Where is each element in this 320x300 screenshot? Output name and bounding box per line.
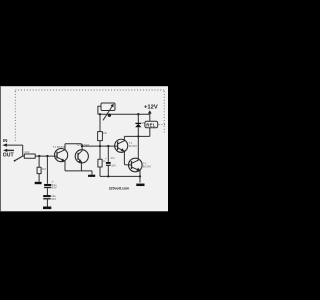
transistor T3 circle: [115, 139, 128, 152]
relay RL1 coil box: [145, 121, 158, 127]
diode D1 anode wire: [137, 127, 139, 136]
T2 emitter arrowhead: [78, 159, 82, 162]
transistor T2 circle: [75, 150, 88, 163]
node R2 junction: [38, 155, 40, 157]
svg-text:IN: IN: [3, 138, 7, 143]
svg-text:+12V: +12V: [144, 105, 158, 111]
svg-text:+: +: [105, 157, 107, 161]
P1 wiper arrowhead: [110, 104, 113, 108]
OUT arrowhead: [3, 149, 7, 152]
node diode top junction: [137, 113, 139, 115]
+12V arrowhead: [148, 110, 152, 113]
svg-text:BC548: BC548: [129, 144, 137, 148]
transistor T4 circle: [129, 158, 143, 172]
node C3 junction: [107, 145, 109, 147]
wire R2 to ground: [38, 174, 40, 182]
capacitor C2 plate 1: [43, 195, 51, 197]
+12V arrow wire: [149, 112, 151, 114]
node pot wiper junction: [108, 114, 111, 117]
wire supply to relay: [149, 114, 151, 121]
potentiometer P1 wiper arrow: [103, 106, 113, 121]
transistor T3 emitter: [118, 148, 132, 165]
svg-text:BC548: BC548: [143, 165, 151, 169]
resistor R4 box: [98, 159, 102, 167]
wire R4 to rail: [99, 167, 101, 176]
transistor T4 emitter: [132, 167, 141, 183]
wire C2 to ground: [46, 200, 48, 207]
transistor T3 base bar: [117, 142, 119, 151]
svg-text:320volt.com: 320volt.com: [109, 185, 130, 190]
white schematic background: [0, 86, 168, 211]
capacitor C1 plate 1: [44, 184, 51, 186]
node T2 collector junction: [81, 145, 83, 147]
wire C3 from node: [107, 146, 109, 162]
diode D1 triangle: [135, 124, 141, 128]
wire R2 down: [38, 156, 40, 167]
enclosure dashed border left: [14, 91, 16, 141]
wire C1 to C2: [46, 188, 48, 195]
capacitor C2 plate 2: [43, 198, 51, 200]
capacitor C3 plate 1: [106, 162, 111, 164]
IN arrowhead: [2, 143, 7, 146]
node R3 top junction: [99, 113, 101, 115]
resistor R1 box: [24, 154, 35, 158]
transistor T2 collector: [78, 146, 82, 155]
wire R3 to node: [99, 141, 101, 147]
potentiometer P1 body: [101, 103, 115, 111]
ground bar G1: [35, 182, 42, 184]
svg-text:63V: 63V: [51, 197, 56, 201]
node C1 junction: [46, 155, 48, 157]
wire C3 to rail: [107, 166, 109, 177]
wire jack vertical: [22, 145, 24, 156]
T1 emitter arrowhead: [61, 158, 65, 161]
svg-text:63V: 63V: [52, 186, 57, 190]
svg-text:16V: 16V: [111, 164, 116, 168]
transistor T1 circle: [55, 149, 68, 162]
enclosure dashed border top: [15, 89, 164, 91]
wire emitter stub down: [91, 171, 93, 175]
wire R1 to T1 base: [35, 155, 57, 157]
wire R3 from rail: [99, 114, 101, 131]
switch contact dot: [14, 160, 16, 162]
IN arrow wire: [6, 144, 23, 146]
node C3 bottom junction: [107, 175, 109, 177]
relay bottom wire: [149, 128, 151, 137]
wire base node horizontal: [82, 145, 118, 147]
potentiometer P1 left leg: [98, 106, 101, 114]
resistor R3 box: [98, 132, 103, 141]
resistor R2 box: [37, 167, 41, 173]
ground bar G4: [136, 184, 144, 187]
node T4 emitter rail junction: [139, 175, 141, 177]
wire +12V supply rail: [98, 113, 150, 115]
svg-text:REL: REL: [146, 123, 156, 128]
svg-text:10k: 10k: [103, 131, 108, 135]
capacitor C1 plate 2: [44, 187, 51, 189]
wire collectors T1-T2: [65, 144, 82, 146]
left edge artifact line: [0, 86, 2, 211]
ground bar G2: [43, 207, 51, 210]
transistor T4 collector: [132, 136, 139, 163]
wire C1 down: [46, 156, 48, 184]
ground bar G3: [88, 175, 95, 177]
black letterbox background: [0, 0, 168, 300]
transistor T3 collector: [118, 136, 125, 144]
transistor T1 collector: [57, 144, 65, 154]
node R chain junction: [99, 145, 101, 147]
transistor T4 base bar: [131, 161, 133, 169]
svg-text:1M: 1M: [42, 167, 47, 171]
T4 emitter arrowhead: [136, 168, 140, 171]
transistor T1 base bar: [56, 152, 58, 159]
node diode bottom junction: [137, 135, 139, 137]
relay dashed link: [159, 124, 166, 126]
transistor T1 emitter: [57, 157, 65, 171]
collector node horizontal: [124, 135, 149, 137]
diode D1 cathode bar: [135, 122, 141, 124]
svg-text:47u: 47u: [111, 156, 116, 160]
OUT arrow wire: [6, 149, 15, 151]
diode D1 cathode wire: [137, 114, 139, 123]
T3 emitter arrowhead: [121, 148, 125, 151]
wire R4 from node: [99, 146, 101, 159]
capacitor C3 plate 2: [106, 164, 111, 166]
switch arm: [15, 156, 23, 161]
transistor T2 base bar: [77, 153, 79, 160]
ground rail: [100, 175, 140, 177]
wire jack to R1: [23, 155, 25, 157]
transistor T2 emitter: [78, 158, 81, 171]
svg-text:OUT: OUT: [3, 152, 15, 158]
enclosure dashed border right: [163, 91, 165, 133]
wire emitter rail: [65, 170, 92, 172]
